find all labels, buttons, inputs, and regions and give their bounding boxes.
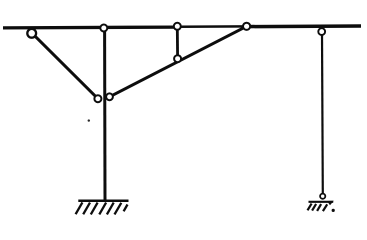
hinge H4 (bottom of link) bbox=[174, 55, 181, 62]
wire: top beam left segment bbox=[3, 25, 178, 29]
ground: right pinned support baseline bbox=[309, 201, 334, 203]
ground: right support hatching bbox=[308, 204, 328, 212]
ground: left support hatching bbox=[76, 202, 128, 214]
ground: right support dot bbox=[332, 209, 335, 212]
hinge H2 (top of left column) bbox=[100, 25, 107, 32]
hinge H9 (bottom pin of right column) bbox=[320, 194, 325, 199]
hinge H1 (left, under beam) bbox=[27, 29, 36, 38]
hinge H5 (beam, diagonal anchor) bbox=[243, 23, 250, 30]
ground: right support baseline end wedge bbox=[327, 201, 334, 205]
hinge H3 (beam, top of link) bbox=[174, 23, 181, 30]
hinge H7 (joint, left circle) bbox=[94, 95, 101, 102]
wire: top beam middle segment bbox=[178, 25, 247, 28]
wire: right diagonal member bbox=[110, 26, 247, 97]
ground: left fixed support baseline bbox=[78, 200, 128, 203]
wire: top beam right segment bbox=[247, 24, 361, 28]
hinge H6 (top of right column) bbox=[318, 28, 325, 35]
hinge H8 (joint, right circle) bbox=[106, 93, 113, 100]
wire: left column bbox=[103, 29, 106, 201]
wire: right column bbox=[321, 34, 324, 195]
node: stray speck bbox=[88, 119, 90, 121]
wire: short vertical link bbox=[176, 28, 179, 58]
wire: left diagonal member bbox=[32, 33, 98, 99]
